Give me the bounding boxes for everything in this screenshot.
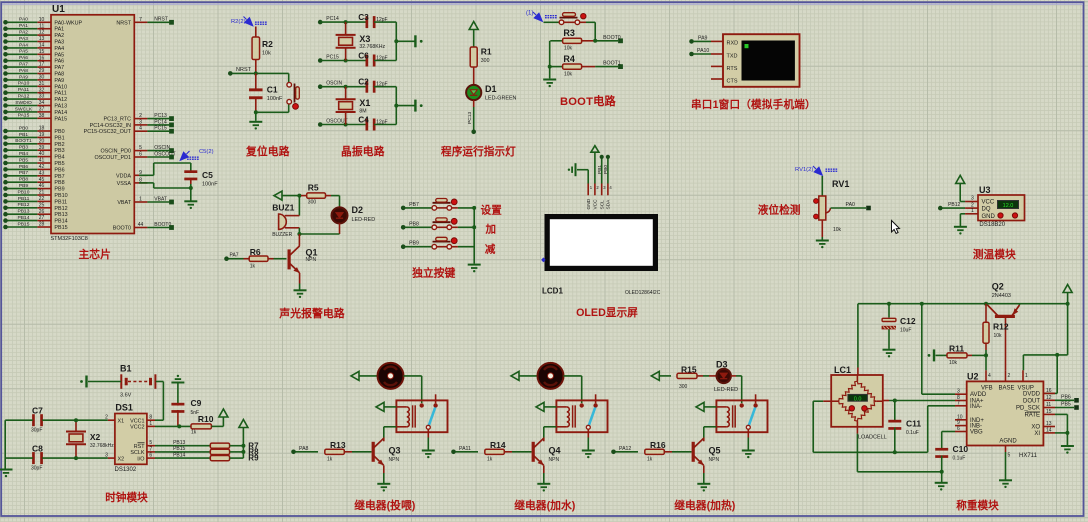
svg-text:VBAT: VBAT bbox=[154, 196, 167, 202]
svg-text:6: 6 bbox=[139, 152, 142, 158]
svg-text:8M: 8M bbox=[359, 108, 366, 114]
svg-text:PD_SCK: PD_SCK bbox=[1016, 406, 1040, 412]
svg-text:继电器(投喂): 继电器(投喂) bbox=[354, 498, 416, 512]
svg-text:PB0: PB0 bbox=[54, 129, 64, 135]
svg-text:DVDD: DVDD bbox=[1023, 391, 1041, 397]
svg-text:25: 25 bbox=[39, 202, 45, 208]
svg-text:12: 12 bbox=[1046, 395, 1052, 401]
svg-text:串口1窗口（模拟手机端）: 串口1窗口（模拟手机端） bbox=[691, 98, 816, 111]
svg-text:15: 15 bbox=[39, 49, 45, 55]
svg-text:3: 3 bbox=[957, 389, 960, 395]
svg-text:PA10: PA10 bbox=[697, 48, 709, 54]
svg-text:PB3: PB3 bbox=[19, 145, 29, 151]
svg-text:R9: R9 bbox=[248, 454, 259, 463]
svg-text:PB6: PB6 bbox=[54, 167, 64, 173]
svg-text:15: 15 bbox=[1046, 409, 1052, 415]
svg-text:16: 16 bbox=[39, 55, 45, 61]
svg-text:10k: 10k bbox=[564, 46, 573, 52]
svg-text:PB11: PB11 bbox=[18, 196, 30, 202]
svg-text:PB7: PB7 bbox=[54, 174, 64, 180]
svg-text:PA6: PA6 bbox=[19, 55, 28, 61]
svg-text:OLED显示屏: OLED显示屏 bbox=[576, 307, 638, 319]
svg-text:10k: 10k bbox=[994, 333, 1003, 339]
svg-text:OSCIN: OSCIN bbox=[326, 81, 342, 87]
svg-text:BASE: BASE bbox=[999, 386, 1015, 392]
svg-text:LC1: LC1 bbox=[834, 365, 851, 375]
svg-text:27: 27 bbox=[39, 215, 45, 221]
svg-text:CTS: CTS bbox=[727, 79, 738, 85]
svg-text:PA10: PA10 bbox=[54, 84, 67, 90]
svg-text:31: 31 bbox=[39, 81, 45, 87]
svg-text:AVDD: AVDD bbox=[970, 392, 987, 398]
svg-text:(1): (1) bbox=[526, 11, 533, 17]
svg-text:INA-: INA- bbox=[970, 404, 982, 410]
svg-text:PA7: PA7 bbox=[230, 253, 239, 259]
svg-text:11: 11 bbox=[1046, 402, 1051, 408]
svg-text:XI: XI bbox=[1034, 431, 1040, 437]
svg-text:PA8: PA8 bbox=[19, 68, 28, 74]
svg-text:1: 1 bbox=[1025, 373, 1028, 379]
svg-text:X2: X2 bbox=[90, 432, 101, 442]
svg-text:Q5: Q5 bbox=[709, 446, 721, 456]
svg-text:R5: R5 bbox=[308, 183, 319, 193]
svg-text:DOUT: DOUT bbox=[1023, 398, 1040, 404]
svg-text:Q1: Q1 bbox=[306, 247, 318, 257]
svg-text:PB12: PB12 bbox=[18, 202, 30, 208]
svg-text:RATE: RATE bbox=[1024, 412, 1040, 418]
svg-text:PC15: PC15 bbox=[154, 126, 167, 132]
svg-text:SWCLK: SWCLK bbox=[15, 106, 33, 112]
svg-text:PA0-WKUP: PA0-WKUP bbox=[54, 20, 82, 26]
svg-text:32: 32 bbox=[39, 87, 45, 93]
svg-text:PA11: PA11 bbox=[54, 91, 66, 97]
svg-text:D2: D2 bbox=[352, 205, 364, 215]
svg-text:PC14: PC14 bbox=[154, 119, 167, 125]
svg-text:R6: R6 bbox=[250, 247, 261, 257]
svg-text:AGND: AGND bbox=[999, 439, 1017, 445]
svg-text:PA11: PA11 bbox=[459, 446, 471, 452]
svg-text:PB6: PB6 bbox=[19, 164, 29, 170]
svg-text:3: 3 bbox=[971, 196, 974, 202]
svg-text:BOOT0: BOOT0 bbox=[113, 226, 131, 232]
svg-text:11: 11 bbox=[39, 23, 44, 29]
svg-text:DS1: DS1 bbox=[115, 403, 133, 413]
svg-text:41: 41 bbox=[39, 158, 45, 164]
svg-text:0.1uF: 0.1uF bbox=[953, 456, 966, 462]
svg-text:I/O: I/O bbox=[137, 456, 144, 462]
svg-text:42: 42 bbox=[39, 164, 45, 170]
svg-text:VFB: VFB bbox=[981, 386, 993, 392]
svg-text:PA7: PA7 bbox=[19, 62, 28, 68]
svg-text:PB4: PB4 bbox=[19, 151, 29, 157]
svg-text:PA1: PA1 bbox=[54, 27, 64, 33]
svg-text:39: 39 bbox=[39, 145, 45, 151]
svg-text:X1: X1 bbox=[118, 418, 125, 424]
svg-text:独立按键: 独立按键 bbox=[412, 266, 455, 280]
svg-text:XO: XO bbox=[1031, 425, 1040, 431]
svg-text:BOOT1: BOOT1 bbox=[603, 61, 621, 67]
svg-text:5: 5 bbox=[1008, 453, 1011, 459]
svg-text:12pF: 12pF bbox=[376, 82, 387, 88]
svg-text:PA15: PA15 bbox=[54, 116, 67, 122]
svg-text:PB7: PB7 bbox=[409, 202, 419, 208]
svg-text:SCL: SCL bbox=[600, 200, 606, 210]
svg-text:PA5: PA5 bbox=[19, 49, 28, 55]
svg-text:PB13: PB13 bbox=[18, 209, 30, 215]
svg-text:测温模块: 测温模块 bbox=[973, 248, 1016, 261]
svg-text:C2: C2 bbox=[358, 77, 369, 87]
svg-text:38: 38 bbox=[39, 113, 45, 119]
svg-text:C10: C10 bbox=[953, 444, 969, 454]
svg-text:R4: R4 bbox=[563, 54, 575, 64]
svg-text:10k: 10k bbox=[262, 51, 271, 57]
svg-text:33: 33 bbox=[39, 94, 45, 100]
svg-text:U3: U3 bbox=[979, 185, 991, 195]
svg-text:C3: C3 bbox=[358, 12, 369, 22]
svg-text:10: 10 bbox=[39, 17, 45, 23]
svg-text:STM32F103C8: STM32F103C8 bbox=[51, 236, 88, 242]
svg-text:R3: R3 bbox=[563, 28, 575, 38]
svg-text:PA5: PA5 bbox=[54, 52, 64, 58]
svg-text:OSCIN_PD0: OSCIN_PD0 bbox=[100, 149, 131, 155]
svg-text:SDA: SDA bbox=[606, 199, 612, 210]
svg-text:37: 37 bbox=[39, 107, 45, 113]
svg-text:40: 40 bbox=[39, 151, 45, 157]
svg-text:PC14: PC14 bbox=[326, 16, 339, 22]
svg-text:程序运行指示灯: 程序运行指示灯 bbox=[440, 145, 516, 158]
svg-text:PA11: PA11 bbox=[18, 87, 30, 93]
svg-text:1k: 1k bbox=[327, 456, 333, 462]
svg-text:加: 加 bbox=[485, 223, 497, 236]
svg-text:10k: 10k bbox=[949, 360, 958, 366]
svg-text:26: 26 bbox=[39, 209, 45, 215]
svg-text:PB13: PB13 bbox=[54, 212, 67, 218]
svg-text:晶振电路: 晶振电路 bbox=[341, 144, 385, 158]
svg-text:C4: C4 bbox=[358, 114, 369, 124]
svg-text:PB7: PB7 bbox=[19, 170, 29, 176]
svg-text:PB14: PB14 bbox=[173, 452, 185, 458]
svg-text:R1: R1 bbox=[481, 47, 492, 57]
svg-text:PA12: PA12 bbox=[54, 97, 67, 103]
svg-text:PA12: PA12 bbox=[619, 446, 631, 452]
svg-text:称重模块: 称重模块 bbox=[956, 499, 999, 512]
svg-text:BOOT0: BOOT0 bbox=[603, 35, 621, 41]
svg-text:1k: 1k bbox=[647, 456, 653, 462]
svg-text:PB1: PB1 bbox=[54, 135, 64, 141]
svg-text:100nF: 100nF bbox=[202, 182, 218, 188]
svg-text:PA4: PA4 bbox=[19, 42, 28, 48]
svg-text:6: 6 bbox=[149, 453, 152, 459]
svg-text:VCC: VCC bbox=[982, 200, 995, 206]
svg-text:Q2: Q2 bbox=[992, 282, 1004, 292]
svg-text:PB10: PB10 bbox=[54, 193, 67, 199]
svg-text:DS1302: DS1302 bbox=[115, 467, 137, 473]
svg-text:PB4: PB4 bbox=[54, 155, 64, 161]
svg-text:PB9: PB9 bbox=[54, 187, 64, 193]
svg-text:20: 20 bbox=[39, 138, 45, 144]
svg-text:PB9: PB9 bbox=[19, 183, 29, 189]
svg-text:PB9: PB9 bbox=[409, 241, 419, 247]
svg-text:PA10: PA10 bbox=[18, 81, 30, 87]
svg-text:PB1: PB1 bbox=[597, 165, 603, 174]
svg-text:R13: R13 bbox=[330, 440, 346, 450]
svg-text:PC14-OSC32_IN: PC14-OSC32_IN bbox=[90, 123, 131, 129]
svg-text:C11: C11 bbox=[906, 419, 921, 429]
svg-text:NPN: NPN bbox=[709, 457, 720, 463]
svg-text:34: 34 bbox=[39, 100, 45, 106]
svg-text:PA3: PA3 bbox=[54, 40, 64, 46]
svg-text:PB15: PB15 bbox=[18, 221, 30, 227]
svg-text:45: 45 bbox=[39, 177, 45, 183]
svg-text:12pF: 12pF bbox=[376, 120, 387, 126]
svg-text:D3: D3 bbox=[716, 360, 728, 370]
svg-text:复位电路: 复位电路 bbox=[245, 144, 290, 158]
svg-text:PB13: PB13 bbox=[173, 440, 185, 446]
svg-text:减: 减 bbox=[485, 242, 496, 255]
svg-text:NRST: NRST bbox=[236, 67, 252, 73]
svg-text:PA15: PA15 bbox=[18, 113, 30, 119]
svg-text:PA0: PA0 bbox=[19, 17, 28, 23]
svg-text:12pF: 12pF bbox=[376, 17, 387, 23]
svg-text:主芯片: 主芯片 bbox=[79, 247, 111, 261]
svg-text:7: 7 bbox=[149, 446, 152, 452]
svg-text:VCC2: VCC2 bbox=[130, 425, 144, 431]
svg-text:OSCOUT_PD1: OSCOUT_PD1 bbox=[94, 155, 131, 161]
svg-text:C6: C6 bbox=[358, 50, 369, 60]
svg-text:C5(2): C5(2) bbox=[199, 149, 214, 155]
svg-text:NPN: NPN bbox=[306, 257, 317, 263]
svg-text:PA2: PA2 bbox=[19, 30, 28, 36]
svg-text:Q4: Q4 bbox=[549, 446, 561, 456]
svg-text:NRST: NRST bbox=[154, 17, 168, 23]
svg-text:声光报警电路: 声光报警电路 bbox=[278, 306, 344, 320]
svg-text:0.1uF: 0.1uF bbox=[906, 430, 919, 436]
svg-text:RV1(2): RV1(2) bbox=[795, 167, 813, 173]
svg-text:PB1: PB1 bbox=[19, 132, 29, 138]
svg-text:1: 1 bbox=[971, 208, 974, 214]
svg-text:继电器(加水): 继电器(加水) bbox=[514, 498, 576, 512]
svg-text:BOOT0: BOOT0 bbox=[154, 222, 171, 228]
svg-text:PB5: PB5 bbox=[19, 157, 29, 163]
svg-text:DS18B20: DS18B20 bbox=[979, 222, 1005, 228]
svg-text:7: 7 bbox=[957, 400, 960, 406]
svg-text:继电器(加热): 继电器(加热) bbox=[674, 498, 736, 512]
svg-text:PB0: PB0 bbox=[603, 165, 609, 174]
svg-text:10k: 10k bbox=[833, 227, 842, 233]
svg-text:PC15: PC15 bbox=[326, 54, 339, 60]
svg-text:14: 14 bbox=[1046, 427, 1052, 433]
svg-text:VBAT: VBAT bbox=[117, 200, 131, 206]
svg-text:RTS: RTS bbox=[727, 66, 738, 72]
svg-text:8: 8 bbox=[149, 415, 152, 421]
svg-text:BUZZER: BUZZER bbox=[272, 232, 292, 238]
svg-text:OSCIN: OSCIN bbox=[154, 145, 170, 151]
svg-text:R15: R15 bbox=[681, 365, 697, 375]
svg-text:R12: R12 bbox=[993, 322, 1009, 332]
svg-text:21: 21 bbox=[39, 190, 45, 196]
svg-text:GND: GND bbox=[982, 214, 996, 220]
svg-text:1: 1 bbox=[149, 421, 152, 427]
svg-text:LCD1: LCD1 bbox=[542, 287, 563, 296]
svg-text:PB8: PB8 bbox=[409, 221, 419, 227]
svg-text:NPN: NPN bbox=[549, 457, 560, 463]
svg-text:R11: R11 bbox=[949, 343, 964, 353]
svg-text:300: 300 bbox=[308, 199, 317, 205]
svg-text:X3: X3 bbox=[359, 34, 370, 44]
svg-text:7: 7 bbox=[139, 17, 142, 23]
svg-text:30pF: 30pF bbox=[31, 428, 42, 434]
svg-text:PA9: PA9 bbox=[698, 35, 708, 41]
svg-text:18: 18 bbox=[39, 126, 45, 132]
svg-text:C7: C7 bbox=[32, 406, 43, 416]
svg-text:14: 14 bbox=[39, 43, 45, 49]
svg-text:RXD: RXD bbox=[727, 41, 739, 47]
svg-text:1: 1 bbox=[139, 197, 142, 203]
svg-text:C9: C9 bbox=[191, 398, 202, 408]
svg-text:29: 29 bbox=[39, 68, 45, 74]
svg-text:PA13: PA13 bbox=[54, 104, 67, 110]
svg-text:NRST: NRST bbox=[116, 20, 131, 26]
svg-text:46: 46 bbox=[39, 183, 45, 189]
svg-text:TXD: TXD bbox=[727, 53, 738, 59]
svg-text:BOOT1: BOOT1 bbox=[15, 138, 32, 144]
svg-text:SCLK: SCLK bbox=[130, 450, 144, 456]
svg-text:13: 13 bbox=[39, 36, 45, 42]
svg-text:PB15: PB15 bbox=[173, 446, 185, 452]
svg-text:PA0: PA0 bbox=[846, 202, 856, 208]
svg-text:LED-GREEN: LED-GREEN bbox=[485, 96, 517, 102]
svg-text:0.0: 0.0 bbox=[854, 396, 862, 402]
svg-text:300: 300 bbox=[679, 384, 688, 390]
svg-text:PA4: PA4 bbox=[54, 46, 64, 52]
svg-text:PB12: PB12 bbox=[54, 206, 67, 212]
svg-text:PB6: PB6 bbox=[1061, 394, 1071, 400]
svg-text:D1: D1 bbox=[485, 84, 497, 94]
svg-text:液位检测: 液位检测 bbox=[758, 204, 801, 217]
svg-text:PA12: PA12 bbox=[18, 94, 30, 100]
svg-text:12.0: 12.0 bbox=[1003, 203, 1014, 209]
svg-text:BOOT电路: BOOT电路 bbox=[560, 94, 617, 108]
svg-text:PB12: PB12 bbox=[948, 202, 960, 208]
svg-text:13: 13 bbox=[1046, 421, 1052, 427]
svg-text:PB10: PB10 bbox=[18, 189, 30, 195]
svg-text:VDDA: VDDA bbox=[116, 173, 131, 179]
svg-text:12pF: 12pF bbox=[376, 56, 387, 62]
svg-text:PB11: PB11 bbox=[54, 199, 67, 205]
svg-text:VSSA: VSSA bbox=[117, 181, 132, 187]
svg-text:4: 4 bbox=[139, 126, 142, 132]
svg-text:10uF: 10uF bbox=[900, 328, 911, 334]
svg-text:43: 43 bbox=[39, 170, 45, 176]
svg-text:PC13: PC13 bbox=[154, 113, 167, 119]
svg-text:100nF: 100nF bbox=[267, 96, 283, 102]
svg-text:HX711: HX711 bbox=[1019, 453, 1038, 459]
svg-text:LOADCELL: LOADCELL bbox=[858, 435, 887, 441]
svg-text:44: 44 bbox=[138, 222, 144, 228]
svg-text:PA7: PA7 bbox=[54, 65, 64, 71]
svg-text:12: 12 bbox=[39, 30, 45, 36]
svg-text:SWDIO: SWDIO bbox=[15, 100, 32, 106]
svg-text:32.768kHz: 32.768kHz bbox=[90, 443, 114, 449]
svg-text:2: 2 bbox=[139, 113, 142, 119]
svg-text:5: 5 bbox=[149, 440, 152, 446]
svg-text:3: 3 bbox=[139, 119, 142, 125]
svg-text:GND: GND bbox=[586, 198, 592, 209]
svg-text:PA8: PA8 bbox=[54, 72, 64, 78]
svg-text:PB8: PB8 bbox=[19, 177, 29, 183]
svg-text:Q3: Q3 bbox=[389, 446, 401, 456]
svg-text:U1: U1 bbox=[52, 4, 65, 15]
svg-text:X1: X1 bbox=[359, 98, 370, 108]
svg-text:4: 4 bbox=[988, 373, 991, 379]
svg-text:U2: U2 bbox=[967, 372, 979, 382]
svg-text:PB2: PB2 bbox=[54, 142, 64, 148]
svg-text:PB14: PB14 bbox=[18, 215, 30, 221]
svg-text:VCC1: VCC1 bbox=[130, 418, 144, 424]
svg-text:PB14: PB14 bbox=[54, 219, 67, 225]
svg-text:10k: 10k bbox=[564, 71, 573, 77]
svg-text:LED-RED: LED-RED bbox=[352, 217, 376, 223]
svg-text:X2: X2 bbox=[118, 456, 125, 462]
svg-text:28: 28 bbox=[39, 222, 45, 228]
svg-text:PC15-OSC32_OUT: PC15-OSC32_OUT bbox=[84, 129, 132, 135]
svg-text:PB8: PB8 bbox=[54, 180, 64, 186]
svg-text:300: 300 bbox=[481, 58, 490, 64]
svg-text:RST: RST bbox=[134, 444, 145, 450]
svg-text:PC13: PC13 bbox=[467, 111, 473, 124]
svg-text:6: 6 bbox=[957, 426, 960, 432]
svg-text:C8: C8 bbox=[32, 444, 43, 454]
svg-text:PA1: PA1 bbox=[19, 23, 28, 29]
svg-text:RV1: RV1 bbox=[832, 179, 849, 189]
svg-text:PB3: PB3 bbox=[54, 148, 64, 154]
svg-text:R2: R2 bbox=[262, 39, 273, 49]
svg-text:PA6: PA6 bbox=[54, 59, 64, 65]
svg-text:R16: R16 bbox=[650, 440, 666, 450]
svg-text:时钟模块: 时钟模块 bbox=[105, 491, 148, 504]
svg-text:30pF: 30pF bbox=[31, 466, 42, 472]
svg-text:32.768KHz: 32.768KHz bbox=[359, 44, 385, 50]
svg-text:30: 30 bbox=[39, 75, 45, 81]
svg-text:PB5: PB5 bbox=[54, 161, 64, 167]
svg-text:OLED12864I2C: OLED12864I2C bbox=[625, 290, 661, 296]
svg-text:PB15: PB15 bbox=[54, 225, 67, 231]
svg-text:1k: 1k bbox=[250, 264, 256, 270]
svg-text:22: 22 bbox=[39, 196, 45, 202]
svg-text:LED-RED: LED-RED bbox=[714, 387, 738, 393]
svg-text:R14: R14 bbox=[490, 440, 506, 450]
svg-text:PA9: PA9 bbox=[19, 74, 28, 80]
svg-text:PA3: PA3 bbox=[19, 36, 28, 42]
svg-text:19: 19 bbox=[39, 132, 45, 138]
svg-text:PA14: PA14 bbox=[54, 110, 67, 116]
svg-text:2: 2 bbox=[1008, 373, 1011, 379]
svg-text:5: 5 bbox=[139, 145, 142, 151]
svg-text:3.6V: 3.6V bbox=[120, 393, 132, 399]
svg-text:PA9: PA9 bbox=[54, 78, 64, 84]
svg-text:设置: 设置 bbox=[481, 204, 503, 217]
svg-text:PA2: PA2 bbox=[54, 33, 64, 39]
svg-text:VCC: VCC bbox=[593, 199, 599, 210]
svg-text:1k: 1k bbox=[487, 456, 493, 462]
svg-text:R10: R10 bbox=[198, 414, 214, 424]
svg-text:PA8: PA8 bbox=[299, 446, 309, 452]
svg-text:C12: C12 bbox=[900, 316, 916, 326]
svg-text:C1: C1 bbox=[267, 85, 278, 95]
svg-text:PC13_RTC: PC13_RTC bbox=[104, 117, 132, 123]
svg-text:BUZ1: BUZ1 bbox=[272, 203, 294, 213]
svg-text:DQ: DQ bbox=[982, 207, 991, 213]
